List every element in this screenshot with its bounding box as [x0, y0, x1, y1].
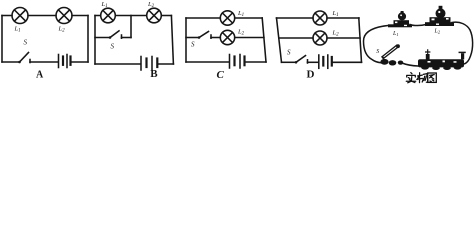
wire D right edge	[359, 18, 362, 62]
svg-text:L1: L1	[237, 10, 244, 18]
label 实物图 (caption, hand-drawn glyphs)	[406, 73, 436, 83]
svg-text:S: S	[24, 39, 28, 47]
wire B switch-branch left segment	[95, 37, 110, 39]
lamp L1 (circuit D)	[313, 11, 327, 25]
wire D left edge	[277, 18, 282, 62]
wire C middle-branch segment to lamp	[211, 37, 220, 39]
wire D middle-branch right segment	[327, 37, 360, 39]
svg-text:L1: L1	[332, 10, 339, 18]
svg-text:L2: L2	[434, 28, 441, 34]
lamp L1 (circuit B)	[101, 8, 116, 23]
wire B right edge	[171, 16, 173, 65]
wire C top-right segment	[235, 17, 263, 19]
wire B bottom-right segment	[158, 63, 173, 65]
wire A bottom-left segment	[2, 61, 19, 63]
wire C top-left segment	[186, 17, 220, 19]
wire A bottom-right segment	[72, 61, 89, 63]
switch S (circuit B)	[109, 31, 122, 39]
svg-text:L2: L2	[332, 29, 340, 37]
wire D top-left segment	[277, 17, 314, 19]
switch S (circuit D)	[295, 56, 308, 64]
glyph 物	[417, 73, 428, 83]
lamp L2 holder (physical)	[425, 6, 454, 26]
lamp L1 (circuit C)	[220, 11, 234, 25]
svg-text:L2: L2	[237, 29, 245, 37]
wire B middle vertical (node between L1 and L2 down to switch branch)	[130, 16, 132, 38]
wire A bottom-middle segment	[30, 61, 58, 63]
svg-text:L1: L1	[14, 26, 21, 34]
svg-text:L1: L1	[101, 1, 108, 9]
svg-text:S: S	[111, 43, 115, 51]
lamp L2 (circuit B)	[147, 8, 162, 23]
wire C left edge	[185, 18, 187, 62]
battery (circuit D)	[319, 55, 332, 68]
svg-text:L2: L2	[58, 26, 66, 34]
switch S (circuit C)	[198, 32, 211, 39]
wire B top-right segment	[161, 15, 171, 17]
lamp L2 (circuit C)	[220, 30, 234, 44]
wire physical right loop (lamp L2 to battery)	[452, 22, 473, 64]
wire D bottom-left segment	[282, 61, 296, 63]
battery (circuit B)	[141, 57, 157, 71]
wire C middle-branch right segment	[235, 37, 264, 39]
wire A top-middle segment	[28, 15, 56, 17]
lamp L2 (circuit D)	[313, 31, 327, 45]
wire D bottom-middle segment	[308, 61, 319, 63]
svg-text:D: D	[307, 69, 315, 81]
wire C bottom-left segment	[186, 61, 229, 63]
lamp L1 (circuit A)	[12, 8, 28, 24]
battery (circuit C)	[230, 55, 245, 69]
wire A right edge	[87, 16, 89, 63]
wire physical between lamps	[410, 25, 426, 26]
svg-text:L2: L2	[147, 1, 155, 9]
wire A top-left segment	[2, 15, 12, 17]
svg-text:C: C	[217, 69, 225, 81]
lamp L1 holder (physical)	[388, 11, 412, 27]
wire A left edge	[1, 16, 3, 63]
wire A top-right segment	[72, 15, 88, 17]
glyph 图	[428, 73, 437, 82]
wire B top-left segment	[95, 15, 101, 17]
wire C right edge	[262, 18, 266, 62]
glyph 实	[406, 73, 415, 83]
wire B top-middle segment	[115, 15, 146, 17]
svg-text:A: A	[36, 69, 44, 80]
svg-text:L1: L1	[392, 31, 399, 37]
wire physical left loop (lamp L1 to switch)	[364, 26, 389, 63]
battery pack (physical)	[418, 50, 465, 70]
wire D middle-branch left segment	[279, 37, 313, 39]
battery (circuit A)	[59, 55, 71, 68]
switch (physical)	[380, 44, 403, 65]
svg-text:S: S	[376, 49, 379, 55]
wire physical bottom segment (switch to battery)	[402, 63, 418, 66]
wire D bottom-right segment	[333, 61, 362, 63]
wire D top-right segment	[327, 17, 359, 19]
svg-text:S: S	[287, 49, 291, 57]
wire C bottom-right segment	[245, 61, 266, 63]
wire B bottom-left segment	[95, 63, 140, 65]
wire B left edge	[94, 16, 96, 65]
switch S (circuit A)	[18, 53, 30, 64]
wire B switch-branch right segment	[122, 37, 132, 39]
lamp L2 (circuit A)	[56, 8, 72, 24]
wire C middle-branch left segment	[186, 37, 199, 39]
svg-text:S: S	[191, 40, 195, 48]
svg-text:B: B	[150, 68, 158, 80]
